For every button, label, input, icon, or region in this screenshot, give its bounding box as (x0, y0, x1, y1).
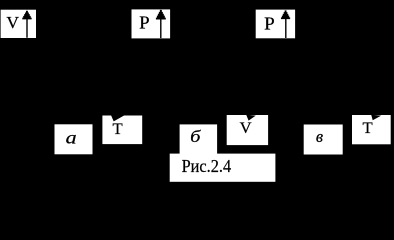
label box T (right graph x-axis) (352, 115, 391, 144)
label box V (left graph y-axis) (1, 10, 36, 38)
svg-text:V: V (240, 120, 252, 137)
svg-text:а: а (66, 127, 77, 147)
label box v (sub-figure letter) (304, 125, 343, 155)
svg-text:Т: Т (363, 120, 373, 137)
svg-text:P: P (264, 13, 275, 33)
svg-text:в: в (316, 127, 324, 146)
axis arrow up (right P graph) (281, 10, 290, 38)
svg-text:P: P (139, 13, 150, 33)
axis arrow up (middle P graph) (156, 10, 166, 38)
svg-text:б: б (190, 127, 201, 146)
svg-text:Т: Т (113, 121, 123, 138)
label box P (right graph y-axis) (256, 10, 295, 39)
svg-text:Рис.2.4: Рис.2.4 (182, 156, 232, 176)
axis arrow up (V graph) (22, 11, 31, 38)
label box V (middle graph x-axis) (227, 115, 268, 145)
svg-text:V: V (6, 13, 19, 32)
label box a (sub-figure letter) (55, 124, 93, 154)
label box b (sub-figure letter) (180, 124, 218, 154)
label box T (left graph x-axis) (102, 116, 142, 145)
label box P (middle graph y-axis) (132, 9, 171, 38)
curve arrowhead wedge over box corner (371, 115, 381, 121)
curve arrowhead wedge over box corner (246, 115, 256, 121)
curve arrowhead wedge over box corner (111, 115, 125, 121)
caption box (170, 154, 276, 182)
